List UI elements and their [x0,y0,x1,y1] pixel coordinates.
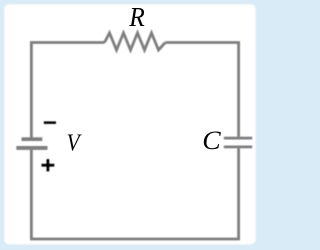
minus sign of battery [44,121,56,124]
resistor R1 zigzag body [105,33,166,50]
plus sign of battery [42,159,55,171]
wire: top-right lead and right-upper segment [165,43,238,137]
capacitor C1 top plate [224,137,252,140]
svg-text:R: R [128,2,144,32]
wire: left-upper segment and top-left lead [31,43,104,138]
white card background [4,4,255,244]
battery V1 top plate (negative, short) [22,137,43,141]
label V [67,129,83,156]
capacitor C1 bottom plate [224,146,252,149]
label R [128,2,144,32]
svg-text:C: C [202,126,222,155]
battery V1 bottom plate (positive, long) [16,146,47,150]
wire: right-lower, bottom and left-lower segments [31,148,238,239]
label C [202,126,222,155]
